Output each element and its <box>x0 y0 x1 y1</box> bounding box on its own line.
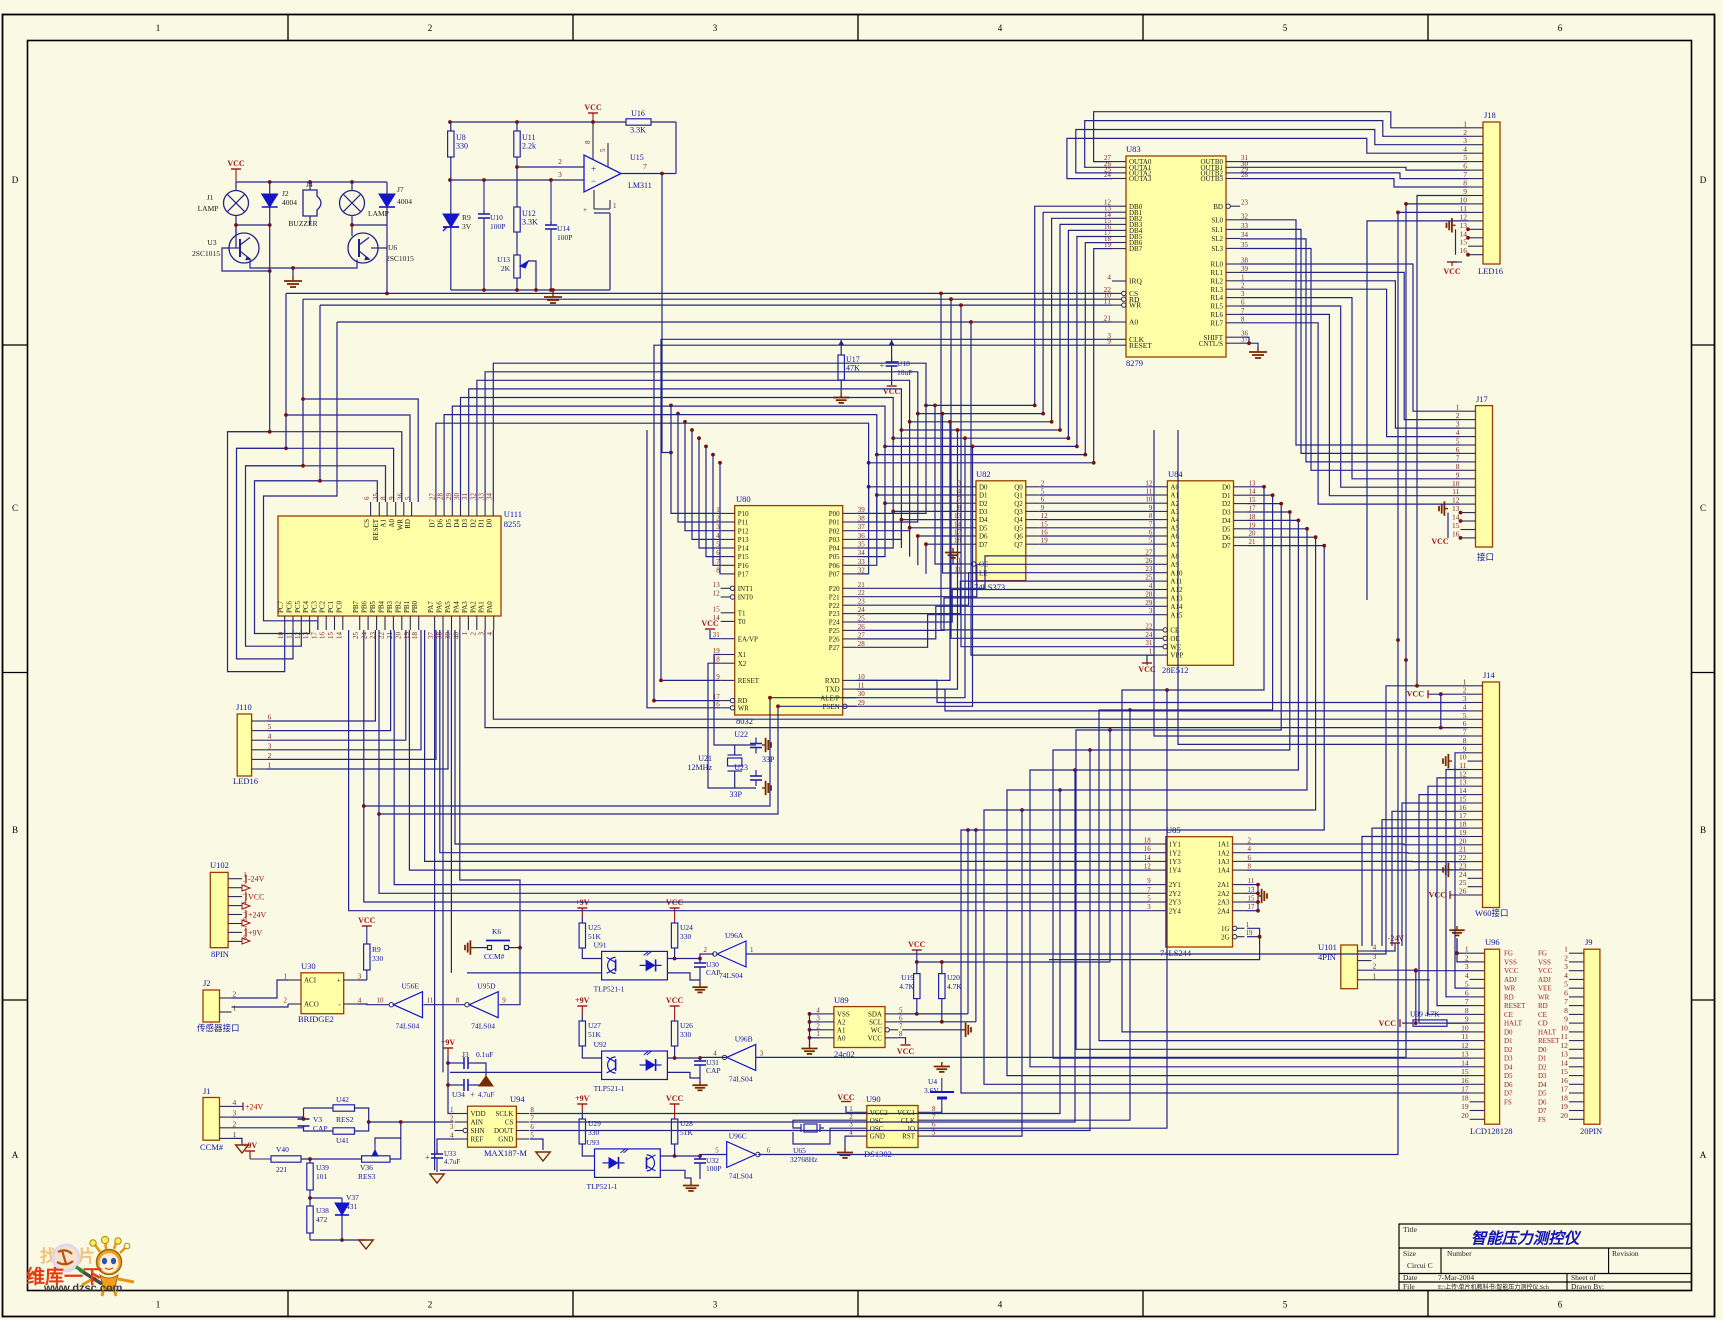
capacitor U30cap CAP <box>699 959 701 963</box>
ground triangle right of caps <box>479 1076 493 1086</box>
svg-text:22: 22 <box>1145 622 1153 630</box>
svg-text:+24V: +24V <box>248 911 267 920</box>
svg-text:OUTB3: OUTB3 <box>1200 175 1223 183</box>
wire J18 pins 13,14,16 ground group <box>1455 229 1457 254</box>
svg-text:2: 2 <box>1248 837 1252 845</box>
svg-text:2: 2 <box>428 1300 433 1310</box>
ground <box>692 983 707 992</box>
wire U89 WC to ground <box>902 1029 962 1031</box>
svg-text:1: 1 <box>268 761 272 770</box>
svg-text:33P: 33P <box>730 790 743 799</box>
svg-text:P20: P20 <box>829 585 840 593</box>
svg-text:D4: D4 <box>1504 1063 1513 1071</box>
ground <box>284 276 302 287</box>
ground <box>801 1044 817 1054</box>
svg-text:8: 8 <box>932 1105 936 1113</box>
svg-text:RD: RD <box>1538 1002 1548 1010</box>
crystal U65 32768Hz <box>804 1124 817 1132</box>
svg-text:WR: WR <box>1538 993 1550 1001</box>
svg-text:P23: P23 <box>829 610 840 618</box>
svg-text:4: 4 <box>998 23 1003 33</box>
svg-text:PC7: PC7 <box>277 600 285 613</box>
svg-text:47K: 47K <box>846 364 860 373</box>
svg-text:J2: J2 <box>203 978 211 988</box>
svg-text:34: 34 <box>858 549 866 557</box>
svg-text:15: 15 <box>1461 1067 1469 1076</box>
inverter U96B 74LS04 <box>727 1044 756 1070</box>
resistor U41 RES2 <box>333 1128 355 1134</box>
svg-text:D1: D1 <box>979 492 988 500</box>
svg-text:22: 22 <box>858 589 866 597</box>
ground <box>536 1152 550 1161</box>
svg-text:1: 1 <box>849 1105 853 1113</box>
svg-text:1: 1 <box>1465 945 1469 954</box>
wire bus U82 OE LE and RXD TXD feeds <box>857 404 975 707</box>
wire U96C output to bus <box>758 640 1398 1155</box>
capacitor U22 33P <box>755 738 757 744</box>
svg-text:19: 19 <box>1041 537 1049 545</box>
svg-text:PC0: PC0 <box>335 600 343 613</box>
title block <box>1399 1224 1692 1291</box>
svg-text:2.2k: 2.2k <box>522 142 536 151</box>
power +9V at MAX187 <box>447 1048 449 1056</box>
svg-text:15: 15 <box>1248 895 1256 903</box>
svg-text:D2: D2 <box>1504 1046 1513 1054</box>
inverter U95D 74LS04 <box>424 1004 465 1006</box>
wire lamp rail <box>236 181 387 183</box>
svg-text:RL3: RL3 <box>1211 286 1224 294</box>
svg-text:D4: D4 <box>979 516 988 524</box>
wire pot to AIN <box>390 1122 401 1159</box>
svg-text:3V: 3V <box>462 222 472 231</box>
svg-text:4: 4 <box>1373 943 1377 952</box>
svg-text:RL4: RL4 <box>1211 294 1224 302</box>
svg-text:传感器接口: 传感器接口 <box>197 1023 240 1033</box>
svg-text:VCC: VCC <box>701 619 719 628</box>
svg-text:D1: D1 <box>1504 1037 1513 1045</box>
svg-text:221: 221 <box>276 1165 288 1174</box>
wire MAX187 outputs to bus <box>530 790 1060 1114</box>
svg-text:34: 34 <box>1241 231 1249 239</box>
wire U85 1G 2G loop <box>1049 928 1260 959</box>
svg-text:P15: P15 <box>738 553 749 561</box>
svg-text:23: 23 <box>1241 199 1249 207</box>
svg-text:PC5: PC5 <box>294 600 302 613</box>
svg-text:LED16: LED16 <box>1478 266 1503 276</box>
svg-text:3: 3 <box>450 1123 454 1131</box>
capacitor U18 10uF <box>891 345 893 361</box>
svg-text:V40: V40 <box>276 1145 289 1154</box>
ground <box>1249 347 1267 358</box>
svg-text:D: D <box>1700 175 1707 185</box>
svg-text:D4: D4 <box>1538 1081 1547 1089</box>
resistor U38 472 <box>307 1206 313 1233</box>
svg-text:11: 11 <box>286 632 294 639</box>
svg-text:J9: J9 <box>1585 937 1593 947</box>
svg-text:11: 11 <box>1461 1032 1468 1041</box>
svg-text:CNTL/S: CNTL/S <box>1199 340 1223 348</box>
svg-text:3: 3 <box>558 170 562 179</box>
svg-text:LE: LE <box>979 570 988 578</box>
wire U91 emitter down <box>667 973 700 980</box>
svg-text:D3: D3 <box>1538 1072 1547 1080</box>
svg-text:A11: A11 <box>1170 578 1182 586</box>
svg-text:RL6: RL6 <box>1211 311 1224 319</box>
lamp J1 <box>224 191 249 216</box>
svg-text:1A4: 1A4 <box>1217 867 1230 875</box>
svg-text:3.3K: 3.3K <box>522 218 538 227</box>
optocoupler U92 TLP521-1 <box>602 1051 668 1080</box>
power +9V at U29 <box>581 1104 583 1112</box>
svg-text:PB4: PB4 <box>378 600 386 613</box>
svg-text:PA7: PA7 <box>427 601 435 613</box>
svg-text:LAMP: LAMP <box>368 209 389 218</box>
svg-text:VSS: VSS <box>1504 958 1517 966</box>
svg-text:2K: 2K <box>501 264 511 273</box>
capacitor U32 100P <box>699 1155 701 1159</box>
svg-text:16: 16 <box>319 632 327 640</box>
svg-text:74LS04: 74LS04 <box>396 1022 420 1031</box>
svg-text:Q4: Q4 <box>1014 516 1023 524</box>
svg-text:18: 18 <box>1249 513 1257 521</box>
wire bus U82 Q to U84 A0-A7 <box>1040 487 1154 544</box>
svg-text:PA5: PA5 <box>444 601 452 613</box>
svg-text:6: 6 <box>1465 988 1469 997</box>
wire bus J14 pins 7 8 from verticals <box>1154 430 1468 744</box>
svg-text:J4: J4 <box>306 180 313 189</box>
svg-text:9: 9 <box>1107 337 1111 346</box>
svg-text:VPP: VPP <box>1170 652 1183 660</box>
ground at LCD pin2 <box>1457 940 1470 962</box>
svg-text:4: 4 <box>450 1132 454 1140</box>
svg-text:D: D <box>12 175 19 185</box>
svg-text:P13: P13 <box>738 536 749 544</box>
svg-text:A13: A13 <box>1170 595 1183 603</box>
svg-text:PB1: PB1 <box>403 600 411 613</box>
svg-text:28: 28 <box>858 640 866 648</box>
resistor U27 51K <box>579 1021 585 1046</box>
power VCC at U84 VPP <box>1147 655 1153 663</box>
svg-text:74LS244: 74LS244 <box>1160 948 1192 958</box>
svg-text:J110: J110 <box>236 702 252 712</box>
svg-text:www.dzsc.com: www.dzsc.com <box>43 1283 123 1295</box>
svg-text:FG: FG <box>1504 950 1513 958</box>
svg-text:R9: R9 <box>462 213 471 222</box>
svg-text:P22: P22 <box>829 602 840 610</box>
wire LM311 top rail <box>450 121 626 123</box>
svg-text:GND: GND <box>870 1133 885 1141</box>
svg-text:6: 6 <box>1041 496 1045 504</box>
svg-text:101: 101 <box>316 1172 328 1181</box>
svg-text:RESET: RESET <box>1504 1002 1526 1010</box>
svg-text:34: 34 <box>486 493 494 501</box>
svg-text:5: 5 <box>1283 1300 1288 1310</box>
svg-text:4.7uF: 4.7uF <box>444 1158 460 1166</box>
svg-text:RESET: RESET <box>1538 1037 1560 1045</box>
svg-text:+9V: +9V <box>248 928 263 937</box>
svg-text:20: 20 <box>1560 1111 1568 1120</box>
inverter U96A 74LS04 <box>717 941 746 967</box>
svg-text:PC6: PC6 <box>286 600 294 613</box>
svg-text:29: 29 <box>1145 599 1153 607</box>
svg-text:11: 11 <box>427 997 434 1005</box>
svg-text:P03: P03 <box>829 536 840 544</box>
svg-text:7: 7 <box>899 1022 903 1030</box>
svg-text:24: 24 <box>858 606 866 614</box>
svg-text:6: 6 <box>1558 1300 1563 1310</box>
ground <box>945 548 961 558</box>
svg-text:74LS04: 74LS04 <box>729 1172 753 1181</box>
svg-text:+: + <box>470 1090 475 1099</box>
U101 4PIN <box>1341 945 1358 989</box>
svg-text:U56E: U56E <box>402 982 420 991</box>
svg-text:2: 2 <box>1041 479 1045 487</box>
ground <box>236 1145 249 1153</box>
wire U96B input to bus <box>756 660 1406 1057</box>
resistor U8 330 <box>448 131 454 157</box>
svg-text:U25: U25 <box>588 923 601 932</box>
svg-text:28: 28 <box>1145 590 1153 598</box>
svg-text:CS: CS <box>505 1119 514 1127</box>
wire crystal to X1 X2 <box>714 655 735 756</box>
svg-text:PC4: PC4 <box>302 600 310 613</box>
wire U83 pin36/37 to ground <box>1240 337 1249 343</box>
svg-text:3: 3 <box>1564 962 1568 971</box>
ground <box>962 1029 966 1031</box>
svg-text:T0: T0 <box>738 618 746 626</box>
svg-text:37: 37 <box>858 523 866 531</box>
svg-text:J14: J14 <box>1483 670 1496 680</box>
svg-text:CAP: CAP <box>313 1124 328 1133</box>
svg-text:INT1: INT1 <box>738 585 754 593</box>
svg-text:Revision: Revision <box>1612 1249 1639 1258</box>
svg-text:2: 2 <box>1564 953 1568 962</box>
svg-text:7-Mar-2004: 7-Mar-2004 <box>1438 1273 1474 1282</box>
resistor U25 51K <box>579 923 585 948</box>
svg-text:10: 10 <box>1145 496 1153 504</box>
svg-text:U83: U83 <box>1126 144 1141 154</box>
svg-text:D0: D0 <box>1222 483 1231 491</box>
svg-text:19: 19 <box>1246 929 1254 937</box>
svg-text:35: 35 <box>372 493 380 501</box>
svg-text:U29: U29 <box>588 1119 601 1128</box>
svg-text:U22: U22 <box>734 730 748 739</box>
wire bus U83 RL4-7 to J17 pins 9-12 <box>1240 298 1461 505</box>
svg-text:RL1: RL1 <box>1211 269 1224 277</box>
svg-text:10: 10 <box>277 632 285 640</box>
svg-text:3: 3 <box>268 741 272 750</box>
svg-text:10: 10 <box>1461 1023 1469 1032</box>
svg-text:D2: D2 <box>979 500 988 508</box>
svg-text:21: 21 <box>1104 314 1112 323</box>
svg-text:J18: J18 <box>1484 110 1496 120</box>
svg-text:D5: D5 <box>1222 525 1231 533</box>
svg-text:P06: P06 <box>829 562 840 570</box>
wire switch to vertical <box>509 947 521 949</box>
svg-text:LED16: LED16 <box>233 776 258 786</box>
svg-text:Q6: Q6 <box>1014 533 1023 541</box>
svg-text:Drawn By:: Drawn By: <box>1571 1282 1604 1291</box>
optocoupler U91 TLP521-1 <box>602 951 668 980</box>
svg-text:RES3: RES3 <box>358 1172 376 1181</box>
svg-text:WR: WR <box>1129 301 1141 310</box>
ground <box>430 1174 444 1183</box>
ground <box>762 744 766 746</box>
svg-text:+: + <box>880 361 885 370</box>
resistor U28 51K <box>671 1119 677 1144</box>
power +24V at J1 <box>242 1102 244 1110</box>
ground <box>833 393 849 403</box>
svg-text:VDD: VDD <box>471 1110 486 1118</box>
svg-text:5: 5 <box>1564 980 1568 989</box>
svg-text:4: 4 <box>1465 971 1469 980</box>
svg-text:13: 13 <box>1461 1050 1469 1059</box>
svg-text:WE: WE <box>1170 643 1181 651</box>
svg-text:8: 8 <box>456 997 460 1005</box>
power VCC at DS1302 <box>846 1106 854 1112</box>
svg-text:27: 27 <box>428 493 436 501</box>
svg-text:6: 6 <box>1241 299 1245 307</box>
U30 BRIDGE2 <box>301 973 344 1014</box>
svg-text:P07: P07 <box>829 571 840 579</box>
svg-text:13: 13 <box>1248 886 1256 894</box>
svg-text:10uF: 10uF <box>897 368 912 377</box>
svg-text:PSEN: PSEN <box>823 703 840 711</box>
ground <box>1258 895 1262 897</box>
wire bus U80 P2 to U84 A8-A15 <box>857 556 1154 647</box>
svg-text:1: 1 <box>613 202 617 210</box>
svg-text:1Y3: 1Y3 <box>1169 858 1182 866</box>
svg-text:Q3: Q3 <box>1014 508 1023 516</box>
svg-text:PB2: PB2 <box>394 600 402 613</box>
U84 28E512 <box>1167 481 1233 666</box>
svg-text:27: 27 <box>858 631 866 639</box>
svg-text:D5: D5 <box>1538 1090 1547 1098</box>
svg-text:WR: WR <box>396 519 404 531</box>
inverter U96C 74LS04 <box>727 1142 756 1168</box>
svg-text:U90: U90 <box>866 1094 881 1104</box>
svg-text:39: 39 <box>1241 265 1249 273</box>
wire J2 to bridge <box>232 980 289 998</box>
svg-text:16: 16 <box>1452 529 1460 538</box>
svg-text:15: 15 <box>713 605 721 613</box>
svg-text:A15: A15 <box>1170 611 1183 619</box>
svg-text:D0: D0 <box>1538 1046 1547 1054</box>
svg-text:U15: U15 <box>630 153 644 162</box>
svg-text:CE: CE <box>1504 1011 1513 1019</box>
svg-text:21: 21 <box>858 581 866 589</box>
svg-text:35: 35 <box>1241 241 1249 249</box>
svg-text:ACO: ACO <box>304 1001 319 1009</box>
svg-text:36: 36 <box>858 532 866 540</box>
svg-text:6: 6 <box>1558 23 1563 33</box>
svg-text:2SC1015: 2SC1015 <box>192 249 220 258</box>
svg-text:V3: V3 <box>313 1115 322 1124</box>
J1 CCM# <box>203 1098 220 1141</box>
svg-text:3: 3 <box>1147 903 1151 911</box>
wire bus 8255 PA down to analog <box>435 630 520 1170</box>
svg-text:+9V: +9V <box>243 1141 258 1150</box>
svg-text:E:\上传\单片机教科书\智能压力测控仪.Sch: E:\上传\单片机教科书\智能压力测控仪.Sch <box>1438 1283 1549 1291</box>
svg-text:J1: J1 <box>203 1086 211 1096</box>
svg-text:CCM#: CCM# <box>200 1142 224 1152</box>
wire crystal to DS1302 <box>793 1120 854 1128</box>
svg-text:1: 1 <box>1373 971 1377 980</box>
svg-text:1: 1 <box>1241 273 1245 281</box>
svg-text:7: 7 <box>1564 997 1568 1006</box>
svg-text:W60接口: W60接口 <box>1475 908 1509 918</box>
svg-text:C: C <box>1700 503 1706 513</box>
wire bus 8255 control top fan to left <box>228 397 419 502</box>
svg-text:4004: 4004 <box>397 197 412 206</box>
svg-text:D1: D1 <box>1538 1055 1547 1063</box>
wire 8255 PA0 PA1 to J14 pins 5 6 <box>493 630 1467 719</box>
wire U96A input from J14 pin1 line <box>746 686 1468 954</box>
svg-text:A1: A1 <box>380 519 388 528</box>
svg-text:P04: P04 <box>829 545 840 553</box>
svg-text:PA4: PA4 <box>452 601 460 613</box>
svg-text:LAMP: LAMP <box>198 204 219 213</box>
svg-text:HALT: HALT <box>1504 1020 1523 1028</box>
wire U93 out to inverter U96C <box>675 1155 727 1157</box>
svg-text:D6: D6 <box>979 533 988 541</box>
svg-text:3: 3 <box>816 1014 820 1022</box>
svg-text:-24V: -24V <box>248 875 265 884</box>
svg-text:1A1: 1A1 <box>1217 841 1230 849</box>
svg-text:1Y2: 1Y2 <box>1169 849 1182 857</box>
U90 DS1302 <box>867 1106 918 1148</box>
svg-text:B: B <box>12 825 18 835</box>
svg-text:CCM#: CCM# <box>484 952 505 961</box>
wire DS1302 GND to ground <box>845 1136 854 1148</box>
svg-text:2A3: 2A3 <box>1217 899 1230 907</box>
svg-text:2: 2 <box>558 157 562 166</box>
wire U95D output to switch vertical <box>499 948 520 1005</box>
svg-text:Number: Number <box>1447 1249 1472 1258</box>
svg-text:35: 35 <box>858 541 866 549</box>
svg-text:VSS: VSS <box>837 1011 850 1019</box>
svg-text:38: 38 <box>1241 257 1249 265</box>
svg-text:4.7K: 4.7K <box>899 982 914 991</box>
svg-text:4: 4 <box>816 1006 820 1014</box>
svg-text:D7: D7 <box>1538 1107 1547 1115</box>
svg-text:VCC: VCC <box>1538 967 1553 975</box>
svg-text:X2: X2 <box>738 660 747 668</box>
wire bus J14 pins 15-19 down <box>1362 803 1468 946</box>
svg-text:SHN: SHN <box>471 1127 485 1135</box>
svg-text:2Y1: 2Y1 <box>1169 881 1182 889</box>
svg-text:9: 9 <box>1147 877 1151 885</box>
svg-text:6: 6 <box>268 713 272 722</box>
wire SDA SCL to bus <box>967 830 969 1014</box>
wire bus 8255 data top fan to U80 P0 <box>436 363 926 574</box>
svg-text:27: 27 <box>1145 548 1153 556</box>
svg-text:INT0: INT0 <box>738 594 754 602</box>
svg-text:T1: T1 <box>738 609 746 617</box>
svg-text:18: 18 <box>411 632 419 640</box>
svg-text:U28: U28 <box>680 1119 693 1128</box>
crystal U21 12MHz <box>728 758 742 766</box>
svg-text:GND: GND <box>498 1136 513 1144</box>
wire bridge plus to resistor <box>357 979 367 981</box>
power -24V at U101 <box>1390 942 1400 944</box>
svg-text:2: 2 <box>1465 953 1469 962</box>
svg-text:6: 6 <box>767 1147 771 1155</box>
resistor U16 3.3K horizontal <box>626 119 651 125</box>
svg-text:U89: U89 <box>834 995 849 1005</box>
svg-text:CD: CD <box>1538 1020 1548 1028</box>
svg-text:1: 1 <box>233 1004 237 1013</box>
